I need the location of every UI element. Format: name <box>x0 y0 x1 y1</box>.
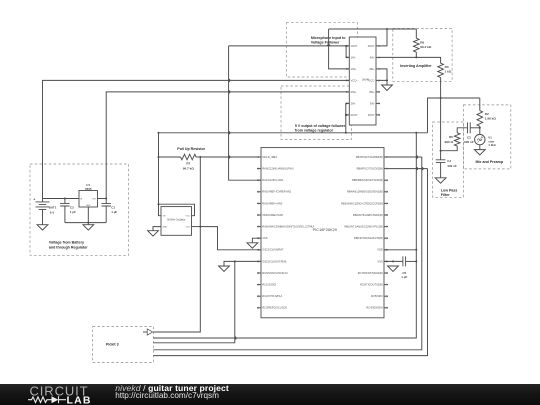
microcontroller U4 PIC18F26K20 <box>257 148 388 318</box>
op-amp U2 LM348 quad package <box>346 37 380 125</box>
svg-text:PIC18F26K20: PIC18F26K20 <box>313 227 338 232</box>
svg-text:sine: sine <box>488 139 494 143</box>
wire: regulator ground rail <box>65 222 106 224</box>
capacitor C2 1uF <box>60 203 76 214</box>
ground LM348 VCC- <box>382 85 393 90</box>
wire: 9V battery rail to VCC+ <box>43 80 350 198</box>
annotation box: Voltage from Battery and through Regulator <box>30 164 129 255</box>
ground PIC VSS right <box>388 266 399 271</box>
svg-text:9 V: 9 V <box>50 211 55 215</box>
svg-text:90.7 kΩ: 90.7 kΩ <box>183 166 195 170</box>
wire: 2OUT feedback to 2IN- and to 5V rail <box>345 103 350 132</box>
svg-text:VCC: VCC <box>185 216 190 218</box>
wire: 4IN- to R3 top <box>380 56 441 63</box>
svg-text:Mic and Preamp: Mic and Preamp <box>476 160 504 164</box>
svg-text:V1: V1 <box>488 136 492 140</box>
svg-text:LM348: LM348 <box>362 80 370 82</box>
footer bar <box>0 384 540 405</box>
svg-text:GND: GND <box>162 227 167 229</box>
svg-text:Low Pass: Low Pass <box>441 189 458 193</box>
wire: Pickit line 4 up to RB7/PGD <box>153 157 421 350</box>
svg-text:993 Ω: 993 Ω <box>444 140 453 144</box>
ground PIC VSS left <box>247 243 258 248</box>
svg-text:LAB: LAB <box>67 395 92 405</box>
wire hop bumps on 1OUT vertical <box>229 79 230 158</box>
svg-text:5 V output of voltage follower: 5 V output of voltage follower <box>295 124 346 128</box>
resistor R7 90.7k pull-up <box>181 154 197 170</box>
svg-text:995 nF: 995 nF <box>464 140 474 144</box>
ground OSC2 <box>219 266 230 271</box>
svg-text:Voltage Follower: Voltage Follower <box>311 41 340 45</box>
wire: regulator OUT to riser <box>98 198 107 200</box>
wire hop bumps on 5V riser <box>416 156 417 170</box>
wire: 5V rail elbow up to bias rail <box>428 97 480 133</box>
annotation box: Mic and Preamp <box>463 105 510 169</box>
capacitor C3 995nF <box>464 122 474 144</box>
capacitor C4 402nF <box>436 159 457 168</box>
resistor R5 993 ohm <box>444 133 460 146</box>
wire: C4 stem <box>440 151 442 178</box>
svg-text:1.98 kΩ: 1.98 kΩ <box>485 117 497 121</box>
svg-text:from voltage regulator: from voltage regulator <box>295 129 334 133</box>
svg-text:OE: OE <box>162 216 166 218</box>
wire: 1OUT feedback to 1IN- <box>346 46 349 58</box>
wire: loop down into 1IN+ <box>329 29 350 69</box>
wire: 5V follower output rail <box>159 132 428 134</box>
annotation box: Low Pass Filter <box>433 122 464 197</box>
wire: MCLR pull-up rail <box>158 156 262 158</box>
wire: Pickit line 5 up to RB6/PGC <box>153 169 427 356</box>
wire: Pickit line 1 up to oscillator output <box>153 226 201 332</box>
wire: R2 bottom to V1 top node <box>479 126 481 134</box>
wire: 1OUT to left vertical <box>229 45 350 47</box>
wire: R6 top lead <box>415 29 417 38</box>
svg-text:and through Regulator: and through Regulator <box>49 246 88 250</box>
wire: buffered signal down to PIC RA1 (pin 3) <box>229 46 261 180</box>
wire hop bump on PGD riser <box>422 167 423 170</box>
ground battery <box>37 225 48 230</box>
wire: bias rail down to R2 <box>479 98 481 111</box>
wire: C3 right lead <box>470 127 480 129</box>
svg-text:OUT: OUT <box>185 227 190 229</box>
svg-text:Inverting Amplifier: Inverting Amplifier <box>400 64 432 68</box>
wire: R3 bottom down to low pass node <box>440 78 442 151</box>
wire: Pickit ground line 3 to OSC2 ground riser <box>153 261 234 342</box>
svg-text:1 µF: 1 µF <box>70 210 76 214</box>
svg-text:R2: R2 <box>485 112 489 116</box>
wire: PIC VSS pin 8 to ground <box>252 238 261 243</box>
svg-text:Pull Up Resistor: Pull Up Resistor <box>177 147 205 151</box>
wire: oscillator output to OSC1 <box>200 227 261 250</box>
svg-text:C2: C2 <box>70 206 74 210</box>
svg-text:R7: R7 <box>186 162 190 166</box>
svg-text:C5: C5 <box>402 271 406 275</box>
wire: VSS pin through C5 to riser <box>384 260 416 262</box>
wire hop bump on 1OUT feedback wire <box>327 45 330 46</box>
resistor R2 1.98k <box>477 111 496 127</box>
svg-text:1 kHz: 1 kHz <box>488 143 496 147</box>
ground C4 low pass <box>435 178 446 183</box>
svg-text:Filter: Filter <box>441 193 450 197</box>
svg-text:Voltage from Battery: Voltage from Battery <box>49 241 84 245</box>
wire: regulator 5V riser to 2IN+ <box>105 92 349 200</box>
wire: oscillator GND lead <box>153 227 161 231</box>
wire: battery to regulator IN <box>43 198 80 200</box>
wire: R5 bottom to C4 node <box>440 146 458 152</box>
wire: left riser from 5V rail to oscillator frame <box>158 132 160 205</box>
wire: oscillator OUT stub <box>192 226 201 228</box>
resistor R3 1k <box>438 63 452 77</box>
svg-text:402 nF: 402 nF <box>447 164 457 168</box>
svg-text:BAT1: BAT1 <box>49 205 57 209</box>
wire: C2 leads <box>64 199 66 223</box>
capacitor C5 1uF <box>401 256 407 279</box>
wire: 4IN+ to ground node <box>380 69 387 81</box>
annotation box: Inverting Amplifier <box>393 29 452 82</box>
svg-text:1 µF: 1 µF <box>401 275 407 279</box>
svg-text:+: + <box>33 197 35 201</box>
resistor R6 98.2k <box>414 38 432 52</box>
svg-text:98.2 kΩ: 98.2 kΩ <box>420 45 432 49</box>
annotation box: 5 V output of voltage follower from voltage regulator <box>281 86 352 140</box>
annotation box: Microphone Input to Voltage Follower <box>286 23 357 77</box>
wire: VDD pin to 5V riser <box>384 249 416 251</box>
svg-text:Pickit 3: Pickit 3 <box>106 343 119 347</box>
ground oscillator <box>148 231 159 236</box>
battery BAT1 9V <box>33 197 56 214</box>
wire: pull-up junction down to oscillator OUT line <box>199 157 201 227</box>
svg-text:R3: R3 <box>445 65 449 69</box>
oscillator U3 50 MHz <box>161 207 192 236</box>
svg-text:C1: C1 <box>111 206 115 210</box>
wire: regulator GND stem <box>87 207 89 225</box>
voltage source V1 sine 1kHz <box>475 134 497 149</box>
svg-text:R5: R5 <box>449 135 453 139</box>
CircuitLab logo <box>0 384 110 405</box>
svg-text:1 µF: 1 µF <box>111 210 117 214</box>
svg-text:C3: C3 <box>467 136 471 140</box>
wire: C3 left lead to R5 top <box>457 128 467 133</box>
svg-text:1 kΩ: 1 kΩ <box>445 70 452 74</box>
wire: C1 leads <box>105 199 107 223</box>
ground regulator <box>83 225 94 230</box>
svg-text:C4: C4 <box>447 159 451 163</box>
svg-text:R6: R6 <box>420 40 424 44</box>
wire: oscillator supply frame <box>159 204 195 216</box>
wire: 4OUT up to top rail <box>380 28 388 46</box>
wire: R6 bottom lead <box>415 52 417 57</box>
wire: top rail from follower input loop to R6 <box>329 28 417 30</box>
annotation box: Pickit 3 connector <box>93 326 154 362</box>
svg-text:U1: U1 <box>86 183 90 187</box>
wire: OSC2 to ground <box>224 260 261 266</box>
voltage regulator U1 7805 <box>79 183 98 207</box>
svg-text:GND: GND <box>86 205 91 207</box>
annotation label: Pull Up Resistor <box>177 147 205 151</box>
capacitor C1 1uF <box>102 203 118 214</box>
ground V1 source <box>474 150 485 155</box>
wire: 5V rail down right side to Pickit line 2 <box>153 133 417 338</box>
wire: battery leads <box>42 199 44 225</box>
node: Pickit port arrow <box>143 329 153 335</box>
svg-text:7805: 7805 <box>85 187 92 191</box>
wire: VCC- to ground <box>380 79 388 85</box>
wire hop bump on ground riser <box>235 337 236 340</box>
